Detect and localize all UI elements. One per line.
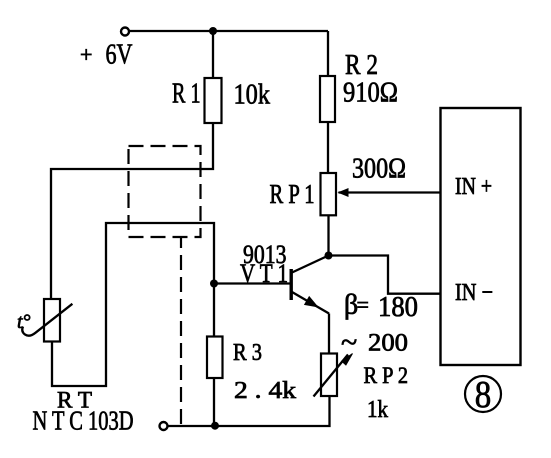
svg-text:6V: 6V — [106, 40, 133, 71]
svg-text:R P 1: R P 1 — [270, 179, 315, 209]
svg-text:1k: 1k — [367, 397, 388, 423]
svg-text:V T 1: V T 1 — [240, 259, 288, 288]
svg-text:N T C 103D: N T C 103D — [33, 406, 134, 436]
svg-text:R 1: R 1 — [172, 78, 201, 110]
svg-text:~: ~ — [341, 326, 357, 359]
svg-text:300Ω: 300Ω — [352, 153, 406, 185]
svg-text:910Ω: 910Ω — [343, 77, 398, 109]
svg-text:R P 2: R P 2 — [364, 363, 409, 388]
svg-text:=: = — [357, 292, 369, 317]
svg-text:IN +: IN + — [455, 174, 492, 200]
svg-text:t°: t° — [17, 311, 31, 333]
svg-text:180: 180 — [378, 292, 418, 323]
svg-text:2 . 4k: 2 . 4k — [234, 378, 296, 404]
svg-text:IN −: IN − — [455, 280, 493, 306]
svg-text:200: 200 — [368, 330, 408, 357]
svg-text:8: 8 — [475, 374, 492, 416]
svg-text:R 3: R 3 — [233, 340, 262, 366]
svg-text:10k: 10k — [234, 79, 271, 111]
svg-text:+: + — [80, 42, 92, 67]
